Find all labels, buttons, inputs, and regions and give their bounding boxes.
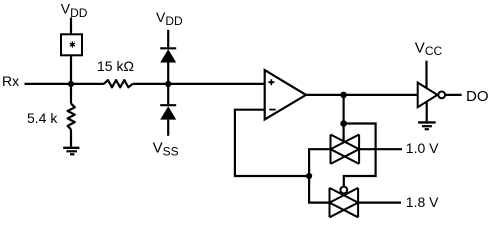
op-amp comparator U1 [265, 70, 306, 119]
switch S1 (transmission gate, 1.0 V) [331, 135, 360, 164]
svg-text:DO: DO [466, 88, 489, 105]
wire (control to switch S1) [343, 124, 345, 143]
output buffer U2 with bubble [418, 83, 445, 108]
wire [167, 30, 169, 48]
svg-text:1.8 V: 1.8 V [406, 194, 439, 210]
svg-text:Rx: Rx [2, 73, 19, 89]
ground (below 5.4 k) [63, 148, 79, 155]
wire (feedback from inverting input) [235, 110, 309, 176]
svg-text:1.0 V: 1.0 V [406, 140, 439, 156]
wire [358, 202, 401, 204]
wire (feedback to S1 left) [309, 149, 330, 176]
svg-text:VDD: VDD [156, 9, 183, 28]
svg-text:VDD: VDD [61, 1, 88, 20]
resistor 15 kOhm zigzag [104, 80, 133, 87]
diode D2 to VSS [160, 84, 176, 136]
wire (control to switch S2 via right detour) [344, 124, 376, 187]
wire (VCC into buffer) [425, 61, 427, 89]
svg-text:VCC: VCC [415, 39, 443, 58]
wire [70, 18, 72, 35]
wire [25, 83, 104, 85]
wire [70, 55, 72, 84]
node junction dot (switch control node) [340, 120, 347, 127]
svg-text:VSS: VSS [153, 139, 179, 158]
wire [343, 95, 345, 124]
node junction dot (feedback node) [306, 173, 312, 179]
wire (comparator output) [306, 94, 418, 96]
svg-text:15 kΩ: 15 kΩ [97, 58, 134, 74]
node junction dot (clamp node) [165, 81, 171, 87]
termination box with asterisk [61, 34, 82, 55]
switch S2 (transmission gate, 1.8 V) [330, 188, 359, 217]
resistor 5.4 k zigzag [68, 84, 75, 147]
wire (feedback to S2 left) [309, 176, 329, 203]
node junction dot (Rx node) [68, 81, 74, 87]
node junction dot (output node) [340, 92, 347, 99]
inverter bubble on S2 control [340, 187, 347, 194]
ground (below output buffer) [418, 122, 436, 129]
wire [359, 148, 402, 150]
wire [133, 83, 265, 85]
diode D1 to VDD [160, 48, 176, 84]
svg-text:5.4 k: 5.4 k [27, 110, 58, 126]
wire (buffer to ground) [426, 102, 428, 122]
wire (buffer output) [445, 94, 462, 96]
